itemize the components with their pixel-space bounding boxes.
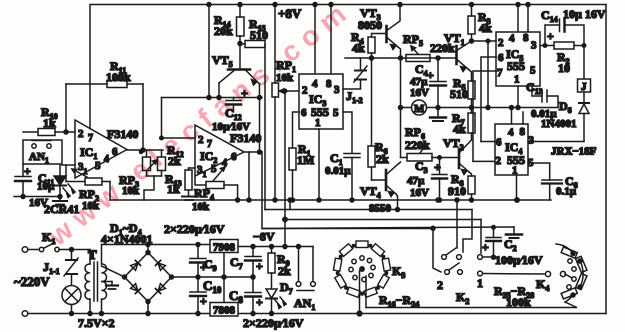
wire IC4 pin4/8 stubs (511, 108, 513, 125)
node rail-IC5b (526, 3, 530, 7)
bus L2 8550 line (265, 209, 472, 211)
svg-text:5: 5 (530, 65, 536, 77)
svg-text:10: 10 (558, 61, 570, 75)
svg-text:47µ: 47µ (407, 175, 425, 187)
wire terminal line upper to C2 (483, 256, 500, 258)
svg-text:10µ∕16V: 10µ∕16V (212, 121, 250, 133)
svg-text:+: + (256, 259, 263, 273)
wire VT1 collector to IC5 pin2 (472, 40, 489, 42)
svg-text:910: 910 (448, 184, 466, 198)
capacitor C7 (252, 247, 254, 257)
K4 bottom lead (366, 302, 577, 308)
capacitor C9 (197, 245, 199, 259)
resistor R12 (161, 150, 163, 157)
bottom wire (22, 311, 28, 317)
relay coil J (583, 46, 585, 80)
diode D6 (579, 104, 589, 114)
regulator 7908 (210, 240, 238, 253)
terminal circles 1 (478, 255, 483, 260)
svg-text:5: 5 (211, 163, 217, 175)
bridge rectifier D1-D4 (125, 253, 172, 302)
wire rail to IC3 pin4 (314, 5, 316, 75)
svg-text:1M: 1M (297, 153, 314, 167)
node R14-R15 (238, 42, 242, 46)
node rail-R14 (238, 3, 242, 7)
resistor R10 (23, 131, 38, 133)
capacitor C1 (343, 112, 352, 153)
svg-text:6: 6 (231, 151, 237, 163)
resistor R1 (289, 148, 296, 170)
svg-text:4k: 4k (352, 41, 365, 55)
svg-text:8: 8 (326, 78, 332, 90)
wire L3 drop to terminal 1 (480, 220, 482, 254)
wire rail to VT5 line (208, 5, 210, 98)
wire IC2 output column (244, 151, 262, 153)
wire motor line extension (472, 107, 559, 109)
svg-text:4k: 4k (479, 21, 492, 35)
wire pin2 column down to L3 and -8V (284, 91, 286, 247)
wire C11/2CR41 bottom (14, 196, 60, 198)
wire IC4 pin3 to relay (528, 141, 584, 143)
svg-text:10µ 16V: 10µ 16V (563, 7, 606, 21)
wire RP3/R12 bottom to bus (147, 175, 162, 177)
wire R4 node down to R6 (371, 58, 373, 146)
svg-text:+: + (256, 295, 263, 309)
resistor R7 (471, 108, 473, 114)
svg-text:0.1µ: 0.1µ (556, 186, 577, 198)
svg-text:F3140: F3140 (230, 131, 261, 145)
node L1-C3 col (436, 198, 440, 202)
svg-text:5: 5 (95, 160, 101, 172)
regulator 7808 (210, 303, 238, 317)
transformer center tap ground (102, 281, 112, 283)
svg-text:10k: 10k (192, 201, 210, 213)
timer IC3 555 (299, 74, 343, 129)
node -8V AN1 (297, 245, 301, 249)
svg-text:J1-1: J1-1 (43, 260, 60, 276)
resistor R6 (368, 146, 375, 167)
ground C2 (513, 227, 515, 234)
rotary switch K3 (333, 241, 390, 297)
svg-text:K4: K4 (536, 277, 549, 293)
svg-text:8: 8 (520, 126, 526, 138)
wire R15 right down to 8550-bus (264, 44, 266, 210)
wire emitter node line y58 (345, 57, 457, 59)
svg-text:7908: 7908 (213, 242, 236, 254)
svg-text:6: 6 (496, 137, 502, 149)
switch K2 contacts (442, 255, 447, 260)
node VT5 right (258, 96, 262, 100)
svg-text:6: 6 (112, 146, 118, 158)
op-amp IC2 (195, 125, 244, 176)
capacitor C2 (493, 242, 495, 258)
switch K1 (39, 247, 43, 251)
node L1-K2 col (455, 198, 459, 202)
resistor R5 (468, 81, 475, 99)
svg-text:K2: K2 (456, 290, 469, 306)
svg-text:16V: 16V (410, 187, 429, 199)
pushbutton AN1 (23, 140, 62, 164)
node rail-RP1 (273, 3, 277, 7)
wire RP1 bottom to bus L1 (274, 97, 276, 200)
svg-text:8550: 8550 (369, 203, 392, 215)
diode D2 (156, 260, 166, 270)
ground R13 (182, 196, 196, 198)
svg-text:2k: 2k (376, 152, 389, 166)
relay contact J1-2 (343, 80, 361, 89)
wire bridge right to caps (172, 276, 199, 278)
node -8V L3col (283, 245, 287, 249)
svg-text:4: 4 (104, 154, 109, 165)
svg-text:20k: 20k (214, 24, 233, 38)
terminal circle top left (22, 247, 28, 253)
node rail-R3 (470, 3, 474, 7)
transformer T primary (89, 250, 91, 265)
svg-text:4k: 4k (453, 122, 466, 136)
regulator center column (223, 253, 225, 303)
wire bridge top to DC line (147, 245, 149, 253)
svg-text:−8V: −8V (253, 230, 275, 244)
potentiometer RP2 (85, 178, 102, 185)
diode D3 (131, 284, 141, 294)
timer IC4 555 (495, 124, 528, 175)
K4 contact circles (568, 259, 572, 263)
pushbutton AN1 lower (312, 247, 314, 282)
node R4-line (370, 56, 374, 60)
svg-text:J: J (581, 81, 587, 93)
svg-text:+: + (434, 160, 441, 174)
svg-text:0.01µ: 0.01µ (325, 165, 351, 177)
wire IC5 pin2 column down (487, 41, 489, 108)
svg-text:10k: 10k (276, 72, 294, 84)
svg-text:+: + (200, 294, 207, 308)
svg-text:4: 4 (509, 33, 515, 45)
wire rail to IC5 pins (517, 5, 519, 33)
node rail-IC5a (516, 3, 520, 7)
wire IC3 pin1 to L1 (318, 129, 320, 200)
diode D4 (156, 284, 166, 294)
svg-text:AN1: AN1 (29, 151, 49, 165)
node VT5 left (217, 96, 221, 100)
resistor R3 (471, 5, 473, 17)
wire IC2 pin2 column (161, 98, 163, 139)
node R10-R11 (64, 130, 68, 134)
wire rail to IC3 pin8 (330, 5, 332, 75)
bus L4 (262, 227, 514, 229)
node 2CR41 bottom (58, 195, 62, 199)
capacitor C11 (22, 164, 24, 176)
svg-text:T: T (88, 247, 97, 262)
svg-text:F3140: F3140 (107, 127, 138, 141)
svg-text:10µ: 10µ (37, 181, 55, 193)
K3 contact circles (360, 256, 364, 260)
motor M (412, 100, 427, 115)
node motor-feed (399, 56, 403, 60)
diode D1 (131, 260, 141, 270)
resistor R8 (468, 176, 475, 194)
node RP4-bus (236, 198, 240, 202)
capacitor C4 (437, 58, 439, 82)
svg-text:8: 8 (523, 32, 529, 44)
wire terminal line lower to K4 (483, 273, 546, 276)
wire IC3 pin6 (293, 112, 300, 148)
potentiometer RP4 (195, 176, 206, 185)
potentiometer RP3 (146, 150, 148, 157)
wire IC5 pin7 column (473, 71, 496, 161)
node rail-VT3 (398, 3, 402, 7)
potentiometer RP6 (407, 154, 432, 162)
svg-text:2k: 2k (168, 154, 181, 168)
-8V rail (238, 246, 313, 248)
svg-text:+: + (427, 68, 434, 82)
svg-text:C7: C7 (230, 255, 243, 271)
capacitor C13 (532, 86, 542, 96)
svg-text:2: 2 (78, 128, 84, 140)
svg-text:31: 31 (197, 164, 207, 179)
capacitor C3 (439, 158, 441, 175)
node rail drop (207, 96, 211, 100)
svg-text:VT4: VT4 (360, 184, 381, 200)
resistor R11 feedback (65, 84, 67, 132)
right border wire (605, 5, 607, 314)
lamp (62, 286, 81, 305)
svg-text:2k: 2k (278, 264, 291, 278)
svg-text:1: 1 (514, 74, 520, 86)
svg-text:C2: C2 (504, 237, 517, 253)
mid line caps (198, 276, 253, 278)
wire IC5 pin1 down (517, 86, 519, 108)
svg-text:7.5V×2: 7.5V×2 (78, 316, 115, 330)
svg-text:6: 6 (301, 107, 307, 119)
svg-text:2: 2 (498, 37, 504, 49)
capacitor C6 (528, 163, 550, 180)
svg-text:K3: K3 (392, 264, 405, 280)
capacitor C8 (252, 277, 254, 292)
svg-text:8050: 8050 (358, 18, 382, 32)
LED D7 (266, 289, 277, 298)
svg-text:VT1: VT1 (444, 31, 465, 47)
node IC1 output (127, 149, 163, 151)
svg-text:7: 7 (88, 133, 93, 144)
wire bridge left to secondary (102, 266, 125, 277)
svg-text:0.01µ: 0.01µ (531, 108, 557, 120)
svg-text:2×220µ∕16V: 2×220µ∕16V (243, 316, 304, 330)
resistor R13 (189, 167, 196, 169)
photodiode 2CR41 (59, 165, 61, 176)
transformer T secondary (102, 264, 107, 299)
svg-text:1k: 1k (43, 116, 56, 130)
svg-text:6: 6 (498, 52, 504, 64)
wire L4 drop to K2 (433, 228, 441, 272)
resistor R15 (240, 43, 245, 45)
svg-text:2: 2 (437, 278, 443, 292)
node -8V R9 (270, 245, 274, 249)
svg-text:100k: 100k (106, 70, 131, 84)
svg-text:16V: 16V (410, 87, 429, 99)
svg-text:510: 510 (250, 28, 268, 42)
potentiometer RP5 (406, 55, 430, 62)
wire IC5 pin6 column (481, 57, 496, 142)
wire bridge bottom (147, 302, 149, 314)
svg-text:D7: D7 (280, 280, 293, 296)
capacitor C12 (233, 98, 235, 101)
svg-text:7: 7 (497, 67, 503, 79)
resistor R14 (239, 5, 241, 18)
svg-text:D6: D6 (559, 99, 572, 115)
node L1-L2 stub (288, 198, 292, 202)
transformer core (93, 262, 95, 301)
wire IC4 pin1 to L1 (516, 175, 518, 200)
node -8V C7 (251, 245, 255, 249)
resistor R4 (372, 34, 387, 38)
node IC5 pin1 col (516, 106, 520, 110)
ground under motor (C4) (436, 106, 440, 110)
node rail-IC3 pin4 (313, 3, 317, 7)
capacitor C14 (545, 25, 560, 46)
svg-text:M: M (414, 103, 425, 115)
wire motor feed column (400, 58, 402, 157)
svg-text:1: 1 (315, 117, 321, 129)
svg-text:AN1: AN1 (294, 296, 315, 312)
wire pin3 (62, 164, 75, 166)
wire IC2 out down to L4 (262, 152, 433, 229)
wire rail to RP1 (274, 5, 276, 84)
node rail-VT5col (207, 3, 211, 7)
svg-text:2×220µ∕16V: 2×220µ∕16V (164, 222, 225, 236)
svg-text:+: + (482, 240, 489, 254)
svg-text:RP5: RP5 (403, 32, 423, 48)
svg-text:+8V: +8V (278, 6, 302, 21)
svg-text:C10: C10 (203, 278, 222, 295)
timer IC5 555 (496, 32, 540, 86)
svg-text:220k: 220k (405, 138, 430, 152)
svg-text:1k: 1k (167, 182, 180, 196)
svg-text:3: 3 (334, 84, 340, 96)
bus L1 10k line (110, 199, 551, 201)
svg-text:3: 3 (529, 135, 535, 147)
node C11 bottom (21, 195, 25, 199)
node pin2 col (486, 106, 490, 110)
op-amp IC1 (75, 120, 127, 178)
svg-text:C9: C9 (204, 257, 217, 273)
svg-text:IC1: IC1 (80, 145, 97, 161)
svg-text:JRX−18F: JRX−18F (551, 146, 597, 158)
watermark www.elecfans.com (42, 0, 358, 252)
DC top line (102, 244, 211, 246)
svg-text:2: 2 (302, 85, 308, 97)
node rail-IC3 pin8 (329, 3, 333, 7)
K3 leads (359, 271, 361, 314)
ground 2CR41 (59, 197, 61, 202)
svg-text:+: + (24, 164, 31, 178)
svg-text:3: 3 (531, 40, 537, 52)
node IC4 pin4 col (510, 106, 514, 110)
+8V top rail (90, 5, 606, 129)
svg-text:510: 510 (450, 87, 468, 101)
relay contact J1-1 (71, 250, 73, 260)
K4 resistor arc (561, 247, 587, 299)
svg-text:VT5: VT5 (212, 53, 233, 69)
potentiometer RP1 (272, 83, 279, 97)
svg-text:10k: 10k (82, 200, 100, 212)
resistor R9 (271, 247, 273, 254)
node RP1 wiper-pin2 (283, 89, 287, 93)
svg-text:2: 2 (496, 155, 502, 167)
svg-text:4: 4 (312, 78, 318, 90)
rotary switch K4 (545, 271, 550, 276)
svg-text:+: + (547, 29, 554, 43)
svg-text:7808: 7808 (213, 305, 236, 317)
K3 center (360, 267, 364, 271)
svg-text:555: 555 (507, 59, 525, 73)
svg-text:10k: 10k (122, 185, 140, 197)
bus L3 (283, 217, 287, 221)
svg-text:VT2: VT2 (443, 136, 464, 152)
svg-text:4: 4 (508, 127, 514, 139)
svg-text:5: 5 (333, 107, 339, 119)
svg-text:~220V: ~220V (14, 274, 50, 289)
svg-text:R16−R24: R16−R24 (379, 293, 419, 309)
svg-text:1: 1 (477, 276, 483, 290)
capacitor C10 (197, 277, 199, 292)
svg-text:2: 2 (198, 134, 204, 146)
wire IC3 pin2 (285, 90, 299, 92)
wire L1 drop to K2 lever (456, 200, 458, 248)
wire L2 drop to K2 (463, 210, 472, 253)
svg-text:J1-2: J1-2 (346, 89, 363, 105)
svg-text:+: + (241, 86, 248, 100)
svg-text:100µ∕16V: 100µ∕16V (495, 253, 543, 267)
wire VT5 emitter line (162, 97, 263, 99)
node output junction (140, 151, 143, 154)
svg-text:C14: C14 (541, 8, 558, 24)
resistor R2 (540, 45, 554, 47)
K3 rim junction dots (336, 244, 389, 296)
